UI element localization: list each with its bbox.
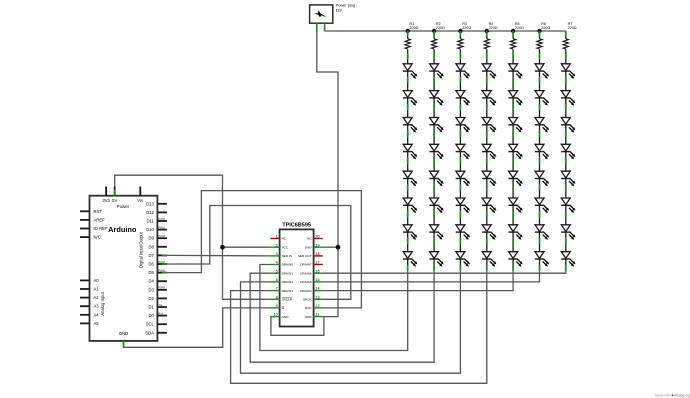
- svg-text:PWM: PWM: [158, 234, 164, 238]
- svg-text:PWM: PWM: [158, 225, 164, 229]
- svg-text:D7: D7: [149, 253, 155, 258]
- svg-text:5V: 5V: [112, 198, 117, 203]
- svg-text:A0: A0: [94, 278, 100, 283]
- svg-text:D12: D12: [146, 210, 154, 215]
- svg-text:PWM: PWM: [158, 260, 164, 264]
- svg-text:220Ω: 220Ω: [568, 26, 577, 30]
- svg-text:7: 7: [276, 287, 278, 291]
- svg-text:D0: D0: [149, 313, 155, 318]
- svg-text:19: 19: [315, 243, 319, 247]
- svg-text:18: 18: [315, 252, 319, 256]
- svg-text:220Ω: 220Ω: [462, 26, 471, 30]
- svg-text:8: 8: [276, 295, 278, 299]
- svg-text:220Ω: 220Ω: [489, 26, 498, 30]
- svg-text:D9: D9: [149, 236, 155, 241]
- svg-text:TPIC6B595: TPIC6B595: [282, 223, 311, 229]
- svg-text:PWM: PWM: [158, 268, 164, 272]
- svg-text:GND: GND: [305, 315, 313, 319]
- svg-text:220Ω: 220Ω: [410, 26, 419, 30]
- svg-text:RCK: RCK: [305, 306, 312, 310]
- svg-text:Rx◂: Rx◂: [158, 311, 163, 315]
- svg-text:NC: NC: [282, 237, 287, 241]
- svg-text:10: 10: [274, 313, 278, 317]
- svg-text:D1: D1: [149, 305, 155, 310]
- svg-text:DRAIN0: DRAIN0: [282, 263, 294, 267]
- svg-text:PWM: PWM: [158, 217, 164, 221]
- svg-text:GND: GND: [119, 331, 128, 336]
- svg-text:D2: D2: [149, 296, 155, 301]
- svg-text:RST: RST: [94, 209, 103, 214]
- svg-text:11: 11: [315, 313, 319, 317]
- svg-text:220Ω: 220Ω: [436, 26, 445, 30]
- svg-text:D6: D6: [149, 262, 155, 267]
- svg-text:Tx▸: Tx▸: [158, 303, 163, 307]
- svg-text:12: 12: [315, 304, 319, 308]
- svg-text:D8: D8: [149, 244, 155, 249]
- svg-text:Vin: Vin: [137, 198, 144, 203]
- svg-text:3: 3: [276, 252, 278, 256]
- svg-text:1: 1: [276, 235, 278, 239]
- svg-text:GND: GND: [305, 245, 313, 249]
- svg-text:17: 17: [315, 261, 319, 265]
- svg-text:D3: D3: [149, 287, 155, 292]
- svg-text:13: 13: [315, 295, 319, 299]
- svg-text:D13: D13: [146, 201, 154, 206]
- svg-text:NC: NC: [307, 237, 312, 241]
- svg-text:SRCK: SRCK: [303, 298, 313, 302]
- svg-text:SCL: SCL: [146, 322, 155, 327]
- svg-text:6: 6: [276, 278, 278, 282]
- svg-text:A3: A3: [94, 304, 100, 309]
- svg-text:Arduino: Arduino: [108, 225, 137, 234]
- svg-text:IO REF: IO REF: [94, 226, 108, 231]
- svg-text:A5: A5: [94, 321, 100, 326]
- svg-text:D11: D11: [147, 219, 155, 224]
- svg-text:DRAIN3: DRAIN3: [282, 289, 294, 293]
- svg-text:N/C: N/C: [94, 235, 101, 240]
- svg-text:D5: D5: [149, 270, 155, 275]
- svg-text:VCC: VCC: [282, 245, 289, 249]
- svg-text:DRAIN1: DRAIN1: [282, 271, 294, 275]
- svg-text:20: 20: [315, 235, 319, 239]
- svg-text:Digital Input/Output: Digital Input/Output: [139, 231, 144, 268]
- svg-text:A4: A4: [94, 312, 100, 317]
- svg-text:DRAIN5: DRAIN5: [300, 280, 312, 284]
- svg-text:A1: A1: [94, 287, 100, 292]
- svg-text:14: 14: [315, 287, 319, 291]
- svg-text:GND: GND: [282, 315, 290, 319]
- svg-text:D10: D10: [146, 227, 154, 232]
- svg-text:A2: A2: [94, 295, 100, 300]
- svg-text:15: 15: [315, 278, 319, 282]
- svg-text:Made with ■ fritzing.org: Made with ■ fritzing.org: [655, 394, 690, 398]
- svg-text:4: 4: [276, 261, 278, 265]
- svg-text:220Ω: 220Ω: [515, 26, 524, 30]
- svg-text:DRAIN4: DRAIN4: [300, 289, 312, 293]
- svg-text:AREF: AREF: [94, 217, 106, 222]
- svg-text:Analog Input: Analog Input: [100, 291, 105, 315]
- svg-text:SER OUT: SER OUT: [298, 254, 312, 258]
- svg-text:5: 5: [276, 269, 278, 273]
- svg-text:DRAIN6: DRAIN6: [300, 271, 312, 275]
- svg-text:9: 9: [276, 304, 278, 308]
- svg-text:PWM: PWM: [158, 286, 164, 290]
- svg-text:3V3: 3V3: [102, 198, 110, 203]
- svg-text:DRAIN2: DRAIN2: [282, 280, 294, 284]
- svg-text:SDA: SDA: [145, 330, 154, 335]
- svg-text:DRAIN7: DRAIN7: [300, 263, 312, 267]
- svg-text:SER IN: SER IN: [282, 254, 292, 258]
- svg-text:D4: D4: [149, 279, 155, 284]
- svg-text:Power: Power: [117, 204, 130, 209]
- svg-text:16: 16: [315, 269, 319, 273]
- svg-text:SRCLR: SRCLR: [282, 298, 293, 302]
- svg-text:220Ω: 220Ω: [541, 26, 550, 30]
- svg-text:12v: 12v: [336, 7, 342, 12]
- svg-text:2: 2: [276, 243, 278, 247]
